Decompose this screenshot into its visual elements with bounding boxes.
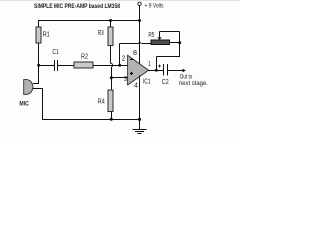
svg-text:+ 9 Volts: + 9 Volts	[145, 2, 165, 9]
svg-text:R5: R5	[148, 32, 154, 39]
wire R4 bottom lead	[111, 112, 113, 121]
node dot R4-bottom rail	[110, 118, 113, 121]
wire R1 top lead	[38, 21, 40, 28]
svg-text:next stage.: next stage.	[179, 80, 208, 87]
wire top rail	[38, 20, 140, 22]
node dot R5 right	[178, 41, 181, 44]
wire R5 right lead	[170, 42, 181, 44]
op-amp IC1	[128, 55, 149, 85]
svg-text:3: 3	[124, 76, 127, 83]
svg-text:C2: C2	[162, 79, 169, 86]
node dot pin3 divider	[110, 76, 113, 79]
resistor R3 top lead	[110, 21, 112, 28]
output arrowhead	[183, 69, 186, 73]
wire R3 lead hop over pin2 wire	[110, 46, 112, 64]
svg-text:SIMPLE MIC PRE-AMP based LM358: SIMPLE MIC PRE-AMP based LM358	[34, 3, 120, 10]
node dot ground junction	[138, 118, 141, 121]
wire C2 to arrow	[168, 70, 183, 72]
node dot pin2 feedback	[118, 64, 121, 67]
resistor R3	[108, 27, 113, 46]
C2 polarity plus	[158, 65, 161, 67]
wire C1 to R2	[58, 65, 74, 67]
R5 wiper arrow	[157, 37, 161, 40]
wire R2 to pin 2	[93, 65, 128, 67]
node dot rail-9V	[138, 19, 141, 22]
svg-text:R1: R1	[43, 31, 50, 38]
resistor R4	[108, 90, 113, 112]
wire R5 wiper loop	[160, 31, 180, 33]
+9V supply terminal	[138, 2, 141, 5]
wire node A to C1	[38, 65, 54, 67]
resistor R1	[36, 27, 41, 43]
wire bottom rail	[43, 119, 141, 121]
wire pin3	[112, 77, 129, 79]
wire feedback top run with hop over pin8 riser	[120, 43, 139, 45]
node dot rail-R3	[109, 19, 112, 22]
wire output	[148, 70, 163, 72]
plus sign pin3	[130, 72, 133, 74]
wire MIC upper lead	[33, 83, 39, 85]
svg-text:2: 2	[122, 55, 126, 62]
svg-text:R2: R2	[81, 53, 88, 60]
node dot output	[155, 69, 158, 72]
svg-text:8: 8	[133, 50, 137, 57]
wire +9V riser / pin8 riser	[139, 5, 141, 63]
wire MIC lower lead	[33, 88, 43, 90]
wire feedback riser	[119, 44, 121, 67]
resistor R2	[74, 62, 93, 68]
wire pin4 riser	[139, 76, 141, 120]
ground	[139, 120, 141, 130]
capacitor C2	[163, 64, 165, 76]
minus sign pin2	[130, 58, 133, 60]
svg-text:R3: R3	[98, 30, 104, 37]
resistor R4 top lead	[111, 78, 113, 91]
svg-text:R4: R4	[98, 98, 105, 105]
microphone MIC	[24, 80, 33, 95]
svg-text:MIC: MIC	[19, 101, 29, 108]
svg-text:4: 4	[134, 83, 138, 90]
svg-text:1: 1	[148, 61, 151, 68]
svg-text:IC1: IC1	[143, 78, 151, 85]
svg-text:C1: C1	[52, 49, 59, 56]
wire R5 wiper stem	[159, 32, 161, 38]
potentiometer R5	[151, 40, 170, 45]
wire R5 to output node	[179, 43, 181, 58]
capacitor C1	[54, 60, 56, 71]
wire R1 bottom lead	[38, 43, 40, 66]
node A (mic/R1/C1 junction)	[37, 64, 40, 67]
